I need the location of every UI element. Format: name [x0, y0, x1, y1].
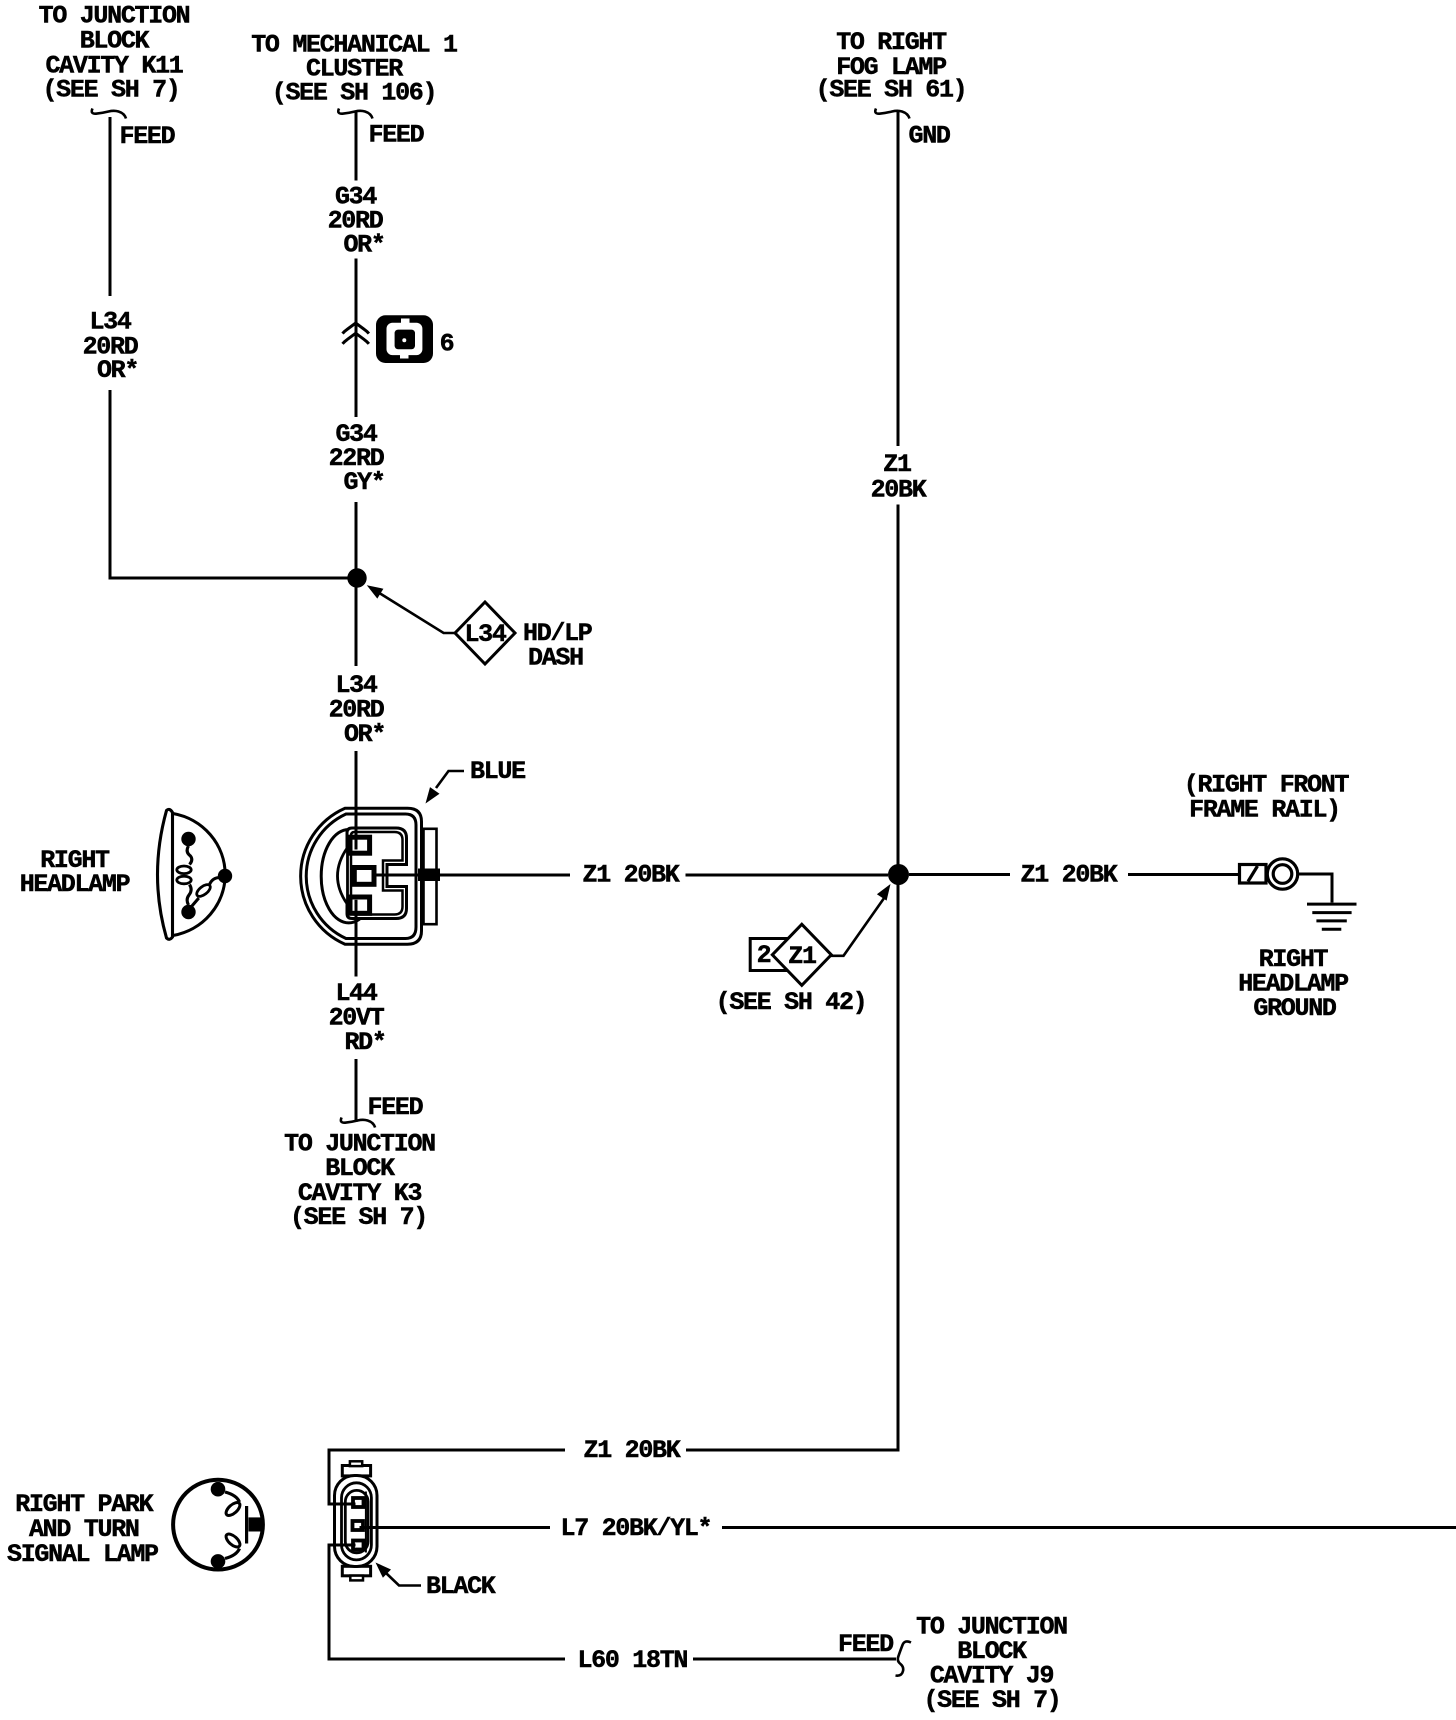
- wire label L34 20RD OR* (below splice): [329, 671, 385, 749]
- lamp: right headlamp bulb symbol: [158, 809, 226, 939]
- wire below headlamp connector (L44): [355, 908, 358, 977]
- splice symbol diamond L34: [455, 602, 515, 664]
- wire Z1 20BK vertical from fog lamp: [897, 112, 900, 446]
- node: RIGHT HEADLAMP GROUND label: [1238, 945, 1348, 1023]
- lamp: right park and turn signal lamp symbol: [173, 1480, 263, 1570]
- inline connector chevrons (connector 6): [343, 323, 369, 344]
- wire L60 18TN: [329, 1545, 565, 1659]
- svg-text:(SEE SH 7): (SEE SH 7): [923, 1686, 1060, 1715]
- node: off-page TO JUNCTION BLOCK CAVITY J9 label: [916, 1613, 1067, 1716]
- wire Z1 vertical continuation to junction: [897, 505, 900, 865]
- off-page connector break symbol (J9 feed, vertical): [896, 1641, 912, 1675]
- connector: right headlamp connector (BLUE): [301, 808, 422, 944]
- wire G34 from cluster, upper segment: [355, 112, 358, 181]
- node: HD/LP DASH label: [523, 619, 592, 673]
- headlamp connector pin 2 (middle): [354, 868, 374, 885]
- svg-text:(SEE SH 7): (SEE SH 7): [290, 1203, 427, 1232]
- wire L44 to junction block K3: [355, 1059, 358, 1122]
- wire Z1 20BK from headlamp connector to junction: [376, 874, 570, 877]
- node: off-page TO JUNCTION BLOCK CAVITY K11 label: [39, 2, 190, 105]
- node: off-page TO RIGHT FOG LAMP label: [816, 28, 967, 105]
- junction dot (L34 splice): [347, 568, 366, 587]
- wire L34 from junction block K11, upper segment: [109, 117, 112, 296]
- node: off-page TO JUNCTION BLOCK CAVITY K3 label: [284, 1130, 435, 1233]
- park/turn connector pin 3: [353, 1541, 364, 1550]
- svg-text:FEED: FEED: [369, 121, 425, 150]
- svg-text:DASH: DASH: [528, 644, 583, 673]
- splice callout arrow to Z1 junction: [831, 898, 885, 956]
- wire G34 middle segment through inline connector: [355, 259, 358, 418]
- wire L34 lower segment turning right to splice junction: [110, 390, 357, 578]
- headlamp connector pin 1 (top): [350, 837, 370, 853]
- wire label L34 20RD OR* (left): [83, 308, 139, 386]
- wire Z1 vertical from junction down to park/turn lamp run: [897, 885, 900, 1452]
- svg-text:GROUND: GROUND: [1253, 994, 1337, 1023]
- svg-text:Z1: Z1: [788, 942, 816, 971]
- park/turn connector pin 2: [353, 1521, 364, 1530]
- wire from ring terminal to ground: [1299, 874, 1333, 903]
- wire label G34 20RD OR*: [328, 183, 385, 260]
- BLUE callout arrow: [436, 771, 464, 788]
- svg-text:2: 2: [757, 941, 771, 970]
- off-page connector break symbol (K11 feed): [92, 109, 126, 119]
- svg-text:GY*: GY*: [343, 468, 384, 497]
- park/turn connector pin 1: [353, 1498, 364, 1507]
- off-page connector break symbol (K3 feed): [341, 1118, 375, 1128]
- off-page connector break symbol (cluster feed): [338, 109, 372, 119]
- node: RIGHT HEADLAMP label: [20, 846, 130, 899]
- svg-text:SIGNAL LAMP: SIGNAL LAMP: [7, 1540, 158, 1569]
- svg-text:BLUE: BLUE: [470, 757, 525, 786]
- wire label Z1 / 20BK (vertical): [871, 450, 927, 505]
- svg-text:(SEE SH 106): (SEE SH 106): [272, 79, 436, 108]
- svg-text:20BK: 20BK: [871, 476, 927, 505]
- headlamp connector pin 3 (bottom): [350, 897, 370, 913]
- ground symbol (right headlamp ground): [1307, 904, 1357, 929]
- wire L7 continuation to right edge: [722, 1526, 1456, 1529]
- svg-text:L7 20BK/YL*: L7 20BK/YL*: [561, 1514, 712, 1543]
- svg-text:FEED: FEED: [838, 1630, 894, 1659]
- svg-text:BLACK: BLACK: [426, 1572, 496, 1601]
- svg-text:FEED: FEED: [368, 1093, 424, 1122]
- headlamp connector lock tab: [424, 829, 437, 924]
- connector: park/turn signal lamp connector (BLACK): [342, 1466, 370, 1576]
- node: (RIGHT FRONT FRAME RAIL) label: [1184, 771, 1350, 825]
- splice symbol diamond Z1: [772, 924, 831, 985]
- off-page connector break symbol (fog lamp gnd): [875, 109, 909, 119]
- wire below splice: [355, 587, 358, 666]
- svg-text:OR*: OR*: [344, 720, 385, 749]
- svg-text:6: 6: [440, 330, 454, 359]
- svg-text:OR*: OR*: [97, 356, 138, 385]
- headlamp connector pin cavity: [347, 828, 407, 919]
- splice callout arrow to junction: [379, 593, 455, 633]
- wire label G34 22RD GY*: [329, 420, 385, 497]
- svg-text:RD*: RD*: [344, 1028, 385, 1057]
- wire Z1 20BK continuation to ring terminal: [1128, 873, 1240, 876]
- svg-text:(SEE SH 7): (SEE SH 7): [42, 76, 179, 105]
- wire Z1 20BK bottom continuation to vertical: [686, 1449, 899, 1452]
- wire L7 20BK/YL*: [365, 1526, 550, 1529]
- wire G34 22RD GY* segment: [355, 353, 358, 417]
- wire stubs into park/turn connector: [329, 1503, 356, 1506]
- wire label L44 20VT RD*: [329, 979, 386, 1057]
- node: RIGHT PARK AND TURN SIGNAL LAMP label: [7, 1490, 158, 1569]
- svg-text:HEADLAMP: HEADLAMP: [20, 870, 130, 899]
- wire Z1 20BK from junction to ground terminal: [909, 873, 1010, 876]
- wire Z1 20BK continuation to junction: [686, 874, 889, 877]
- svg-text:L34: L34: [464, 620, 506, 649]
- svg-text:Z1 20BK: Z1 20BK: [1021, 861, 1118, 890]
- junction dot (Z1 splice): [888, 864, 909, 885]
- in-line connector icon C6 (black connector face): [376, 315, 433, 363]
- node: off-page TO MECHANICAL 1 CLUSTER label: [251, 31, 457, 108]
- wire segment into splice junction: [355, 502, 358, 569]
- wire into headlamp connector: [355, 751, 358, 847]
- svg-text:FRAME RAIL): FRAME RAIL): [1189, 796, 1340, 825]
- svg-text:L60 18TN: L60 18TN: [577, 1646, 687, 1675]
- svg-text:(SEE SH 61): (SEE SH 61): [816, 76, 967, 105]
- connector lock tab wire blob: [418, 869, 440, 882]
- wire stubs through headlamp connector: [355, 780, 358, 850]
- svg-text:OR*: OR*: [343, 231, 384, 260]
- svg-text:Z1 20BK: Z1 20BK: [584, 1436, 681, 1465]
- headlamp connector reflector lens: [338, 848, 348, 905]
- ring terminal (eyelet): [1240, 859, 1298, 889]
- svg-text:FEED: FEED: [120, 122, 176, 151]
- svg-text:(SEE SH 42): (SEE SH 42): [716, 988, 867, 1017]
- BLACK callout arrow: [387, 1574, 422, 1586]
- svg-text:Z1 20BK: Z1 20BK: [583, 861, 680, 890]
- wire Z1 20BK bottom run: [329, 1450, 565, 1504]
- svg-text:GND: GND: [909, 122, 951, 151]
- wire L60 continuation to junction block J9: [693, 1658, 896, 1661]
- splice symbol rectangle 2: [750, 939, 788, 971]
